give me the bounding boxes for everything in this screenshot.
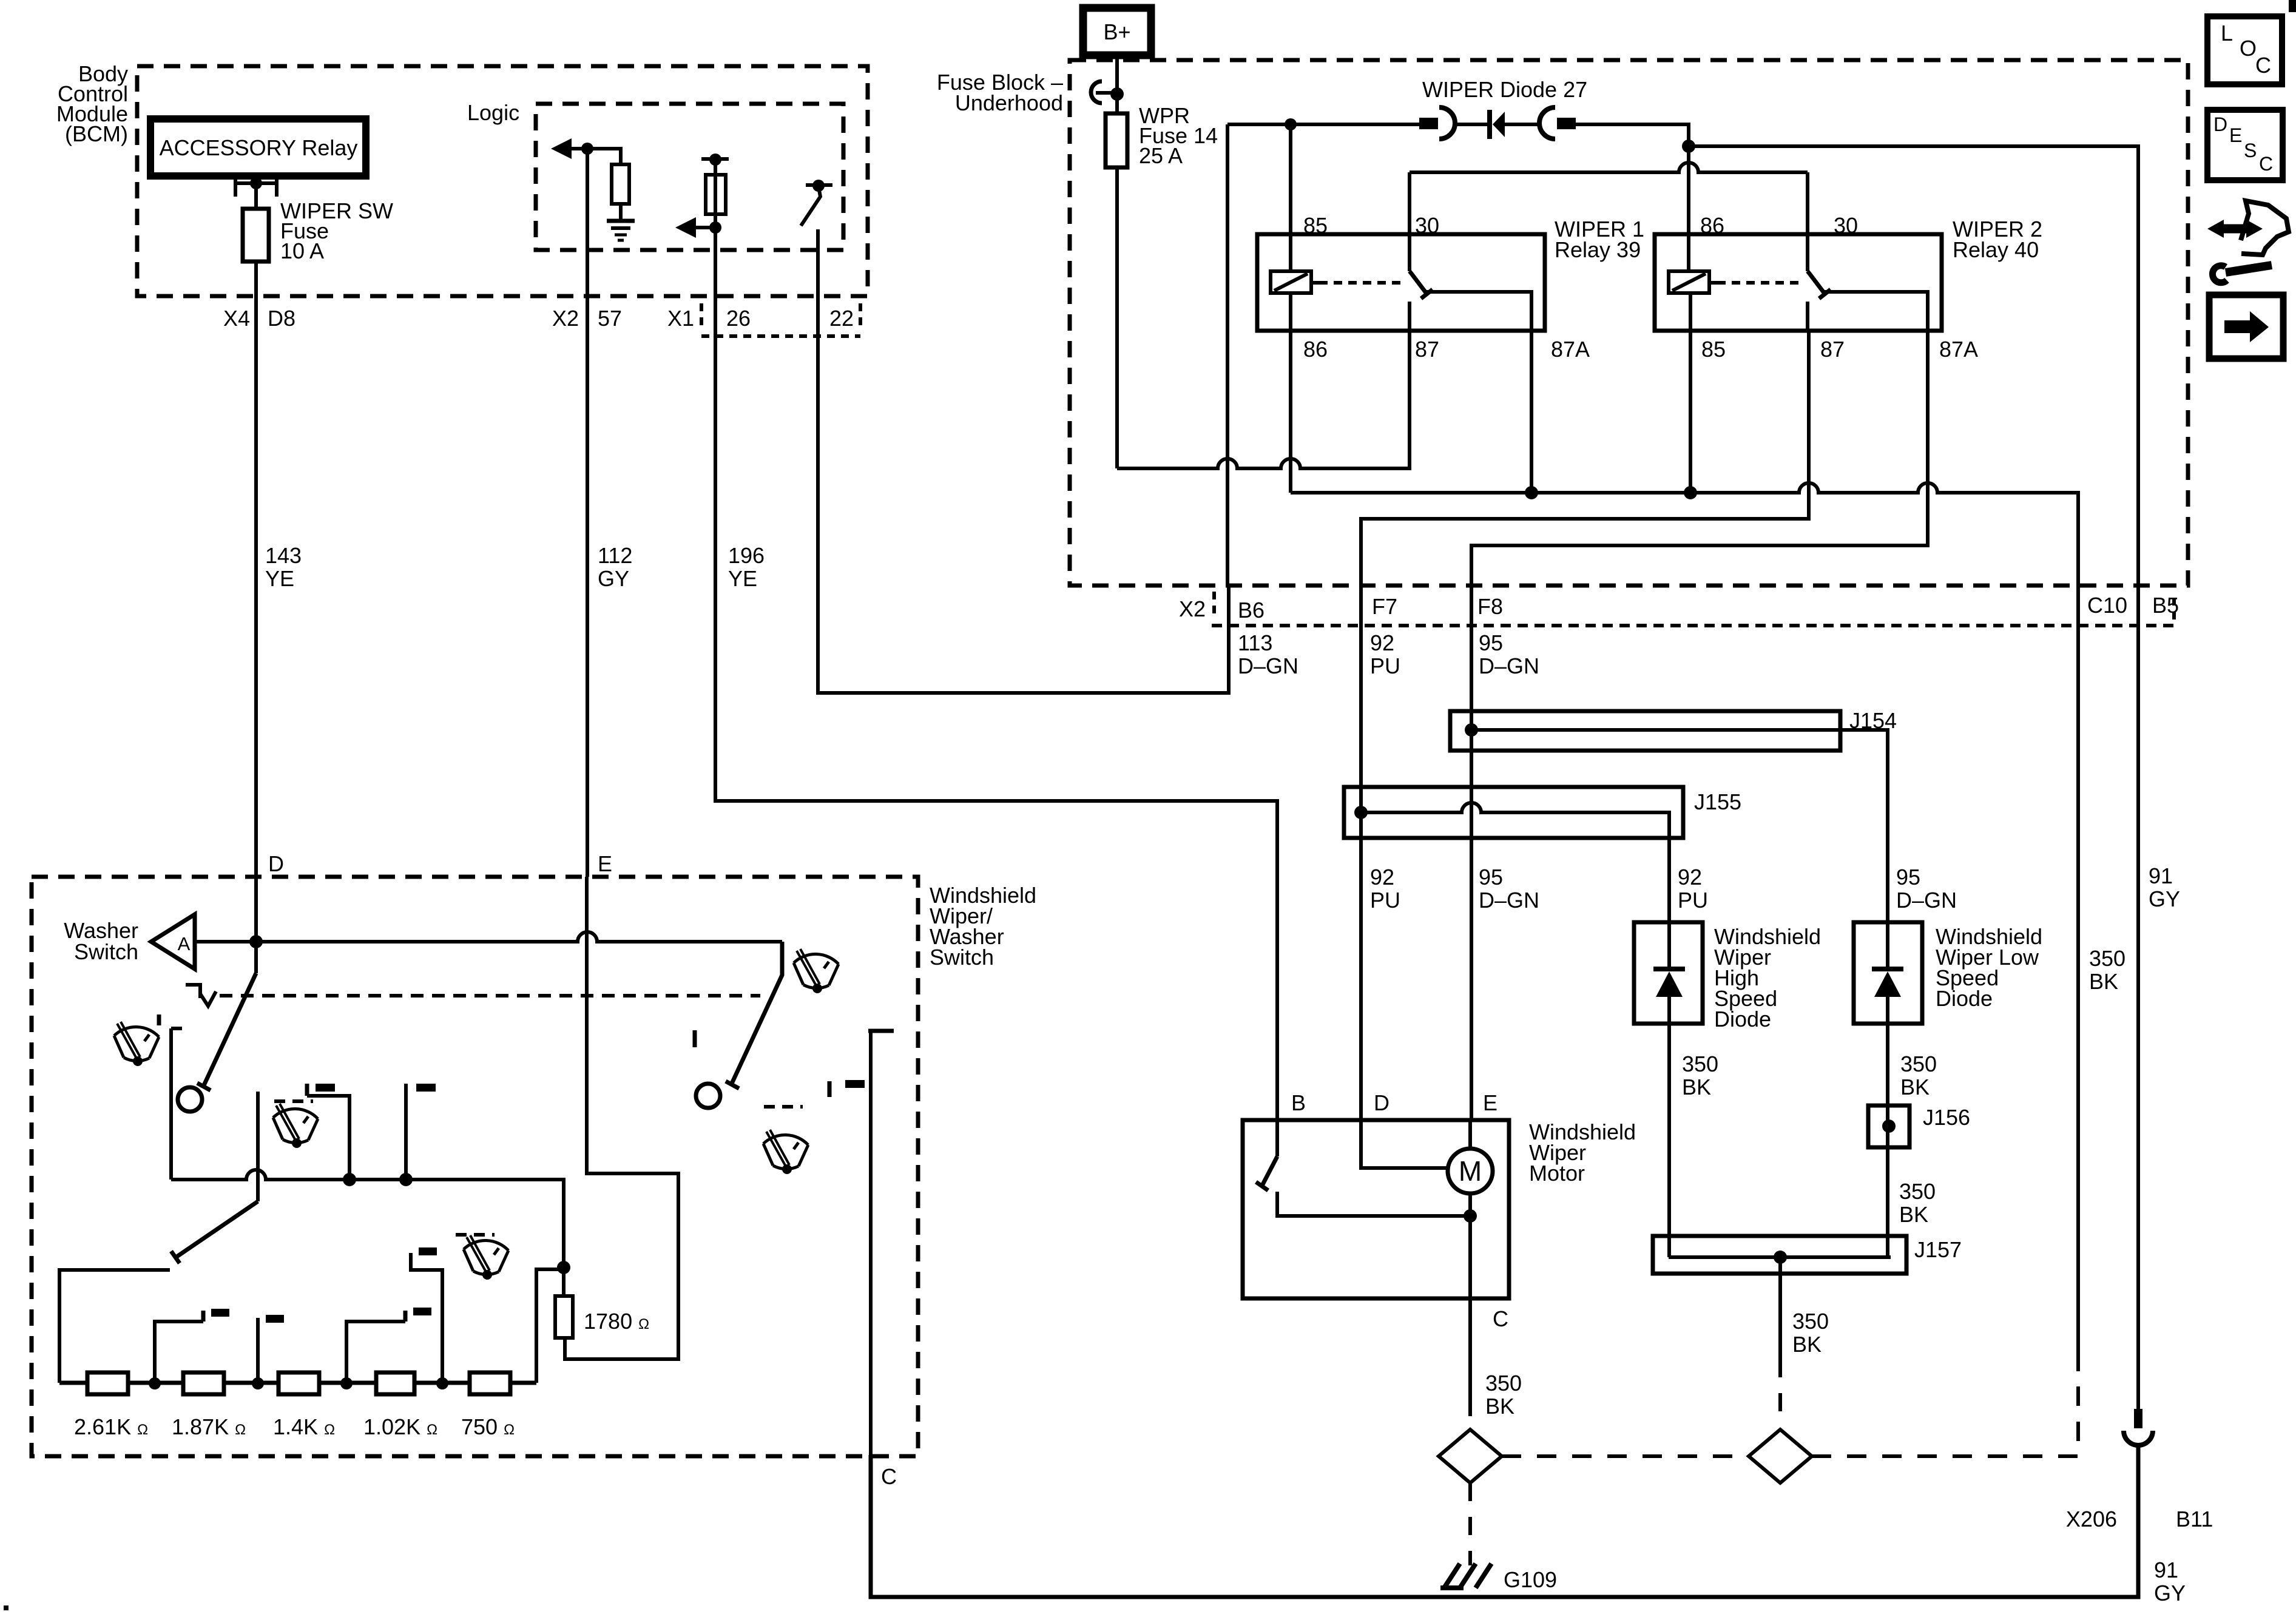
switch 22 tbar (806, 180, 832, 192)
ACCESSORY Relay U1 (150, 119, 366, 176)
wire labels below fuse block (1238, 630, 1539, 678)
X2 connector tick (1212, 592, 1216, 618)
motor pin labels (1374, 1090, 1497, 1115)
svg-text:30: 30 (1415, 213, 1439, 238)
resistor R1 2.61K (87, 1372, 128, 1394)
motor M: Windshield Wiper Motor (1243, 1119, 1636, 1298)
svg-text:D: D (2213, 113, 2227, 135)
svg-text:X1: X1 (667, 306, 694, 331)
splice J156 (1868, 1105, 1970, 1147)
wire: r40 87A to F8 (1471, 331, 1928, 586)
wire 92 PU: F7 down through J155 to motor D (1359, 586, 1363, 1120)
contact circle (wash, left) (178, 1087, 202, 1112)
svg-text:112: 112 (598, 543, 632, 568)
ground distribution diamond 2 (1749, 1430, 1812, 1483)
wire: relay39 85 from diode line (1289, 124, 1292, 271)
svg-text:D8: D8 (268, 306, 295, 331)
logic input arrow 2 (675, 217, 721, 238)
page corner mark (2289, 0, 2296, 12)
X1 connector dotted marks (701, 303, 860, 336)
svg-text:D–GN: D–GN (1896, 888, 1957, 913)
wire: B+ bus to B5 (1689, 146, 2138, 586)
fuse holder bracket (235, 177, 277, 197)
chain junction dots (149, 1377, 448, 1389)
svg-text:Relay 39: Relay 39 (1555, 237, 1641, 262)
wire: E down into switch, hook path to 1780 resistor (565, 877, 678, 1359)
resistor: logic pull-down (612, 164, 629, 204)
wire label 143 YE (265, 543, 302, 591)
svg-text:Switch: Switch (74, 939, 138, 964)
svg-text:E: E (2229, 124, 2242, 146)
switch common bus (hop over arm pivot wire) (171, 1170, 564, 1268)
node: Body Control Module (BCM) label (56, 61, 128, 146)
wire: r40 87 to F7 (1361, 331, 1809, 586)
fuse: WPR Fuse 14 25 A (1106, 103, 1218, 168)
junction: r40 85 on bus (1684, 486, 1697, 499)
wire label 350 BK (low speed upper) (1900, 1052, 1937, 1099)
svg-text:A: A (178, 933, 191, 954)
svg-text:91: 91 (2154, 1558, 2178, 1582)
wiper icon 6 (upper right) (794, 949, 839, 993)
tap stub at 255 (155, 1309, 229, 1383)
svg-text:BK: BK (1899, 1202, 1928, 1227)
junction dots on common bus (343, 1173, 413, 1186)
washer switch connector triangle A (151, 914, 195, 969)
wire: left riser to resistor chain (59, 1270, 170, 1383)
svg-text:B+: B+ (1103, 19, 1130, 44)
svg-text:95: 95 (1896, 865, 1920, 890)
svg-text:F7: F7 (1372, 594, 1397, 619)
wire label 350 BK (J157 out) (1792, 1309, 1829, 1357)
svg-text:350: 350 (1900, 1052, 1937, 1076)
svg-text:D: D (268, 851, 284, 876)
junction: common to 1780 (557, 1261, 570, 1274)
svg-text:YE: YE (265, 566, 294, 591)
wire: relay to fuse holder (254, 176, 258, 209)
svg-text:Logic: Logic (467, 100, 519, 125)
svg-text:BK: BK (2089, 969, 2118, 994)
wire: lower arm pivot feed (256, 1092, 260, 1201)
junction on B+ bus (1682, 140, 1695, 153)
svg-text:E: E (1483, 1090, 1497, 1115)
svg-text:F8: F8 (1477, 594, 1503, 619)
svg-text:C10: C10 (2087, 593, 2127, 618)
wire: arrow node to resistor (587, 149, 621, 164)
resistor R5 750 (470, 1372, 510, 1394)
svg-text:1.02K Ω: 1.02K Ω (363, 1414, 437, 1439)
right connector tick (2172, 598, 2176, 624)
svg-text:91: 91 (2149, 863, 2173, 888)
B+ terminal box (1083, 8, 1151, 55)
diode D27 (1455, 110, 1541, 139)
diode: Windshield Wiper High Speed Diode (1634, 922, 1821, 1257)
svg-text:D: D (1374, 1090, 1389, 1115)
svg-text:86: 86 (1700, 213, 1724, 238)
wire: WPR feed to relay39 pin 87 (hops over B6 and 86 wires) (1117, 331, 1410, 468)
svg-text:85: 85 (1701, 337, 1726, 362)
svg-text:PU: PU (1370, 888, 1400, 913)
splice J154 (1450, 708, 1897, 922)
logic input tbar (26) (701, 154, 729, 166)
wire 26: pin X1-26 down and right to motor pin B (715, 160, 1277, 1120)
contact circle (right) (696, 1084, 720, 1108)
svg-text:87A: 87A (1939, 337, 1978, 362)
switch 22 arm (801, 187, 820, 226)
icon1 tick (157, 1014, 161, 1025)
svg-text:87: 87 (1415, 337, 1439, 362)
wire 113: diode line left leg down to pin B6 (1226, 124, 1229, 586)
icon arrow box (2209, 295, 2283, 359)
wire: 30-30 link (hop over 86 wire of relay 40) (1410, 163, 1808, 172)
svg-text:92: 92 (1678, 865, 1702, 890)
wire: relay40 30 drop (1806, 172, 1809, 271)
wire label 350 BK (high speed) (1682, 1052, 1718, 1099)
svg-text:BK: BK (1792, 1332, 1822, 1357)
svg-text:92: 92 (1370, 865, 1394, 890)
wire label 350 BK (low speed lower) (1899, 1179, 1936, 1227)
junction: D wire on washer line (249, 935, 263, 948)
wire: 86/87A/85 bus to C10 (hops over r40 87 and 87A) (1291, 483, 2078, 586)
relay K40 WIPER 2 Relay 40 (1655, 234, 1942, 331)
mechanical link dashed (220, 994, 760, 998)
Logic dashed box (536, 104, 843, 250)
fuse block pin labels (1179, 593, 2179, 623)
BCM dashed box (137, 66, 868, 296)
wire to ground (619, 204, 623, 221)
svg-text:350: 350 (2089, 946, 2125, 971)
splice J157 (1653, 1236, 1962, 1274)
connector face line (fuse block bottom) (1212, 624, 2174, 627)
relay40 pin labels (1700, 213, 1978, 362)
resistor chain bus segments (59, 1381, 536, 1385)
resistor R3 1.4K (279, 1372, 319, 1394)
svg-text:B5: B5 (2152, 593, 2179, 618)
svg-text:D–GN: D–GN (1238, 653, 1298, 678)
svg-text:GY: GY (598, 566, 629, 591)
Windshield Wiper/Washer Switch box (32, 877, 918, 1456)
contact tick (mist, mid) (693, 1030, 697, 1047)
lower wire labels (1370, 863, 2180, 994)
connector terminal left (1419, 107, 1455, 139)
svg-text:GY: GY (2154, 1581, 2186, 1605)
icon3 dashed bar (274, 1099, 313, 1103)
tap stub at 425 (258, 1315, 284, 1383)
resistor value labels (74, 1414, 515, 1439)
wire: B+ into fuse block (1115, 55, 1119, 113)
svg-text:86: 86 (1303, 337, 1328, 362)
resistor R2 1.87K (183, 1372, 224, 1394)
node: Fuse Block - Underhood label (937, 70, 1063, 115)
svg-text:GY: GY (2149, 886, 2180, 911)
svg-text:Underhood: Underhood (955, 90, 1063, 115)
icon desc box DESC (2207, 110, 2283, 180)
svg-text:350: 350 (1899, 1179, 1936, 1204)
fuse clip hook (1091, 81, 1124, 103)
connector terminal right (1539, 107, 1576, 139)
wire: X206 to bottom bus to switch pin C (871, 1445, 2138, 1597)
svg-text:95: 95 (1479, 630, 1503, 655)
svg-text:J157: J157 (1914, 1237, 1962, 1262)
resistor 1780 ohm (555, 1268, 649, 1338)
ground distribution diamond 1 (1439, 1430, 1502, 1483)
switch arm (wash arm, left) (197, 973, 256, 1090)
svg-text:J155: J155 (1694, 789, 1741, 814)
diode line left segment (1227, 123, 1420, 126)
svg-text:X2: X2 (552, 306, 579, 331)
svg-text:85: 85 (1303, 213, 1328, 238)
svg-text:G109: G109 (1504, 1567, 1557, 1592)
icon4 dashed bar (764, 1105, 803, 1109)
svg-text:143: 143 (265, 543, 302, 568)
svg-text:95: 95 (1479, 865, 1503, 890)
Washer Switch label (64, 918, 138, 964)
svg-text:26: 26 (726, 306, 751, 331)
svg-text:O: O (2240, 36, 2257, 61)
svg-text:S: S (2244, 140, 2257, 161)
svg-text:87A: 87A (1551, 337, 1590, 362)
svg-text:C: C (2255, 53, 2271, 78)
relay K39 WIPER 1 Relay 39 (1257, 234, 1545, 331)
wire: r40 85 down to bus (1689, 331, 1692, 493)
splice J155 (1344, 787, 1741, 922)
relay39 name (1555, 217, 1644, 262)
svg-text:WIPER Diode 27: WIPER Diode 27 (1422, 77, 1587, 102)
wire label 112 GY (598, 543, 632, 591)
svg-text:D–GN: D–GN (1479, 653, 1539, 678)
junction: 85 wire on diode line (1285, 118, 1297, 130)
svg-text:B11: B11 (2176, 1507, 2213, 1531)
pin X4 D8 (223, 306, 295, 331)
wire label 91 GY (bottom) (2154, 1558, 2186, 1605)
icon5 dashed bar (456, 1233, 495, 1237)
svg-text:BK: BK (1485, 1394, 1514, 1419)
svg-text:BK: BK (1682, 1075, 1711, 1099)
svg-text:X4: X4 (223, 306, 250, 331)
wire: D into switch arm pivot (254, 877, 258, 973)
wire label 350 BK (motor C) (1485, 1371, 1522, 1419)
svg-text:Motor: Motor (1529, 1161, 1585, 1186)
svg-text:10 A: 10 A (280, 238, 324, 263)
relay40 name (1953, 217, 2042, 262)
svg-text:X2: X2 (1179, 596, 1206, 621)
svg-text:J156: J156 (1923, 1105, 1970, 1130)
pin X1 26 (667, 306, 751, 331)
resistor R4 1.02K (376, 1372, 414, 1394)
svg-text:350: 350 (1485, 1371, 1522, 1396)
Fuse Block dashed box (1070, 60, 2188, 586)
svg-text:Diode: Diode (1714, 1007, 1771, 1031)
dashed lead to G109 (1468, 1483, 1472, 1565)
wire: relay40 86 from B+ bus (1687, 146, 1690, 271)
svg-text:87: 87 (1820, 337, 1845, 362)
svg-text:YE: YE (728, 566, 757, 591)
svg-text:57: 57 (598, 306, 622, 331)
svg-text:Diode: Diode (1936, 986, 1993, 1011)
svg-text:ACCESSORY Relay: ACCESSORY Relay (160, 135, 358, 160)
svg-text:25 A: 25 A (1139, 143, 1183, 168)
diode: Windshield Wiper Low Speed Diode (1854, 922, 2042, 1257)
wire: r39 87A down to bus (1530, 331, 1533, 493)
dashed ground lead from J157 (1778, 1359, 1782, 1427)
svg-text:L: L (2221, 21, 2233, 46)
logic output arrow 1 (551, 138, 593, 159)
svg-text:2.61K Ω: 2.61K Ω (74, 1414, 148, 1439)
wire 91 GY: B5 down to X206 (2136, 586, 2140, 1409)
fuse F: WIPER SW Fuse 10 A (243, 198, 393, 263)
wire: motor C 350 BK (1468, 1298, 1472, 1398)
tap stub at 571 (346, 1308, 431, 1383)
tap stub at 729 (high speed contact) (411, 1247, 442, 1383)
svg-text:1.87K Ω: 1.87K Ω (172, 1414, 246, 1439)
svg-text:PU: PU (1678, 888, 1708, 913)
connector X206 B11 (2066, 1409, 2213, 1531)
junction: r39 87A on bus (1525, 486, 1538, 499)
svg-text:BK: BK (1900, 1075, 1930, 1099)
ground G109 (1440, 1564, 1557, 1592)
svg-text:C: C (2259, 153, 2273, 175)
wire: stub to chain right end (536, 1269, 564, 1383)
right switch arm assembly (wiper mode switch) (726, 942, 782, 1089)
svg-text:M: M (1459, 1155, 1482, 1187)
svg-text:350: 350 (1792, 1309, 1829, 1334)
wiper icon 4 (right) (763, 1130, 808, 1174)
svg-text:C: C (881, 1464, 897, 1489)
intermittent delay symbol (186, 985, 216, 1006)
wire label 196 YE (728, 543, 765, 591)
wire C10 350 BK down right side (2076, 586, 2080, 1371)
dashed lead motor C to diamond (1468, 1398, 1472, 1427)
wiper icon 5 (lower) (464, 1235, 508, 1280)
icon tools (2207, 201, 2289, 283)
contact tick and mark (right of icon4) (829, 1080, 865, 1097)
dashed ground distribution lines (1502, 1371, 2078, 1456)
wire 95 D-GN: F8 down through J154 to motor E (1470, 586, 1473, 1120)
left contact bus vertical (171, 1028, 182, 1180)
resistor: logic input series (706, 175, 726, 214)
wire: washer line A (hop over E wire) (195, 932, 782, 942)
contact stub over 576 (307, 1084, 349, 1180)
svg-text:113: 113 (1238, 630, 1272, 655)
pin X2 57 (552, 306, 622, 331)
lower switch arm (speed select) (171, 1201, 258, 1263)
contact stub over 669 (406, 1084, 436, 1180)
svg-text:22: 22 (829, 306, 854, 331)
svg-text:B: B (1291, 1090, 1306, 1115)
wire: J157 output (1778, 1257, 1782, 1359)
wire: diode line to corner, B+ bus right (1576, 124, 1689, 146)
svg-text:X206: X206 (2066, 1507, 2117, 1531)
wire: fuse to pin D8 (254, 262, 258, 296)
svg-text:196: 196 (728, 543, 765, 568)
page dot bottom left (4, 1605, 8, 1610)
relay39 pin labels (1303, 213, 1590, 362)
svg-text:Relay 40: Relay 40 (1953, 237, 2039, 262)
svg-text:30: 30 (1834, 213, 1858, 238)
svg-text:B6: B6 (1238, 598, 1264, 623)
switch name label (930, 883, 1036, 970)
wiper icon 1 (left) (114, 1022, 159, 1066)
svg-text:C: C (1493, 1306, 1508, 1331)
ground (logic) (607, 221, 635, 240)
svg-text:E: E (598, 851, 612, 876)
svg-text:D–GN: D–GN (1479, 888, 1539, 913)
svg-text:(BCM): (BCM) (65, 121, 128, 146)
svg-text:PU: PU (1370, 653, 1400, 678)
svg-text:Switch: Switch (930, 945, 994, 970)
wire: relay39 86 down to bus (1289, 331, 1292, 493)
wire: fuse down (1115, 167, 1119, 468)
wire 57: logic to pin X2-57 and down to switch pin E (586, 149, 589, 877)
wire 22: to pin X1-22 then to B6 (818, 229, 1229, 693)
wire 143 YE: pin D8 down to switch pin D (254, 296, 258, 877)
wiper icon 3 (mid) (273, 1104, 318, 1148)
svg-text:350: 350 (1682, 1052, 1718, 1076)
svg-text:J154: J154 (1849, 708, 1897, 733)
svg-text:92: 92 (1370, 630, 1394, 655)
icon loc box LOC (2207, 16, 2282, 84)
wire: relay39 30 drop (1408, 172, 1411, 271)
wire: C contact stub and C wire down (868, 1031, 894, 1455)
